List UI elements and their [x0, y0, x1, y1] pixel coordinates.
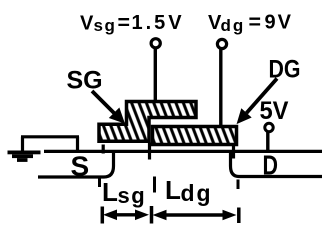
svg-text:dg: dg: [181, 180, 213, 206]
dimension arrow Ldg: [153, 210, 237, 221]
svg-text:DG: DG: [269, 56, 301, 84]
label DG: [269, 56, 301, 84]
extension dash middle: [153, 177, 156, 193]
gate DG (drain gate, hatched): [153, 127, 237, 145]
wire Vdg to DG gate: [219, 49, 222, 128]
label 5V: [260, 97, 289, 125]
tick SG gate left edge: [102, 145, 105, 154]
label SG: [67, 67, 103, 95]
dimension arrow Lsg: [103, 210, 149, 221]
svg-text:=: =: [249, 11, 262, 34]
wire 5V to surface: [266, 132, 269, 154]
terminal Vsg: [151, 39, 160, 48]
label Vsg = 1.5V: [80, 12, 185, 36]
dimension tick right: [237, 208, 241, 224]
gate SG (source gate, stepped hatched): [99, 102, 196, 142]
tick drain junction: [232, 146, 235, 159]
label Vdg = 9V: [208, 11, 293, 35]
svg-text:V: V: [80, 12, 94, 34]
drain junction boundary: [231, 153, 322, 177]
extension dash right: [237, 180, 240, 190]
svg-text:9V: 9V: [265, 12, 293, 34]
wire ground to source: [21, 137, 79, 152]
svg-text:5V: 5V: [260, 97, 289, 125]
label D (drain): [263, 150, 279, 181]
source junction boundary: [38, 152, 114, 177]
svg-text:=: =: [118, 12, 131, 35]
dimension tick middle: [150, 206, 154, 224]
wire Vsg to SG gate: [154, 49, 157, 104]
label Lsg: [102, 177, 146, 208]
svg-text:SG: SG: [67, 67, 103, 95]
svg-text:L: L: [165, 175, 181, 205]
svg-text:sg: sg: [94, 16, 117, 35]
dimension tick left: [101, 207, 105, 224]
label S (source): [71, 151, 90, 182]
surface line (silicon surface): [44, 150, 322, 153]
ground symbol: [8, 151, 41, 162]
label Ldg: [165, 175, 213, 206]
svg-text:dg: dg: [221, 16, 246, 35]
arrow DG pointer: [238, 79, 278, 124]
svg-text:L: L: [102, 177, 118, 207]
terminal Vdg: [217, 39, 226, 48]
svg-text:1.5V: 1.5V: [132, 12, 185, 34]
terminal 5V: [265, 123, 273, 131]
tick SG-DG boundary: [148, 143, 151, 160]
arrow SG pointer: [92, 91, 124, 123]
svg-text:sg: sg: [118, 183, 147, 208]
extension dash left: [98, 176, 101, 188]
